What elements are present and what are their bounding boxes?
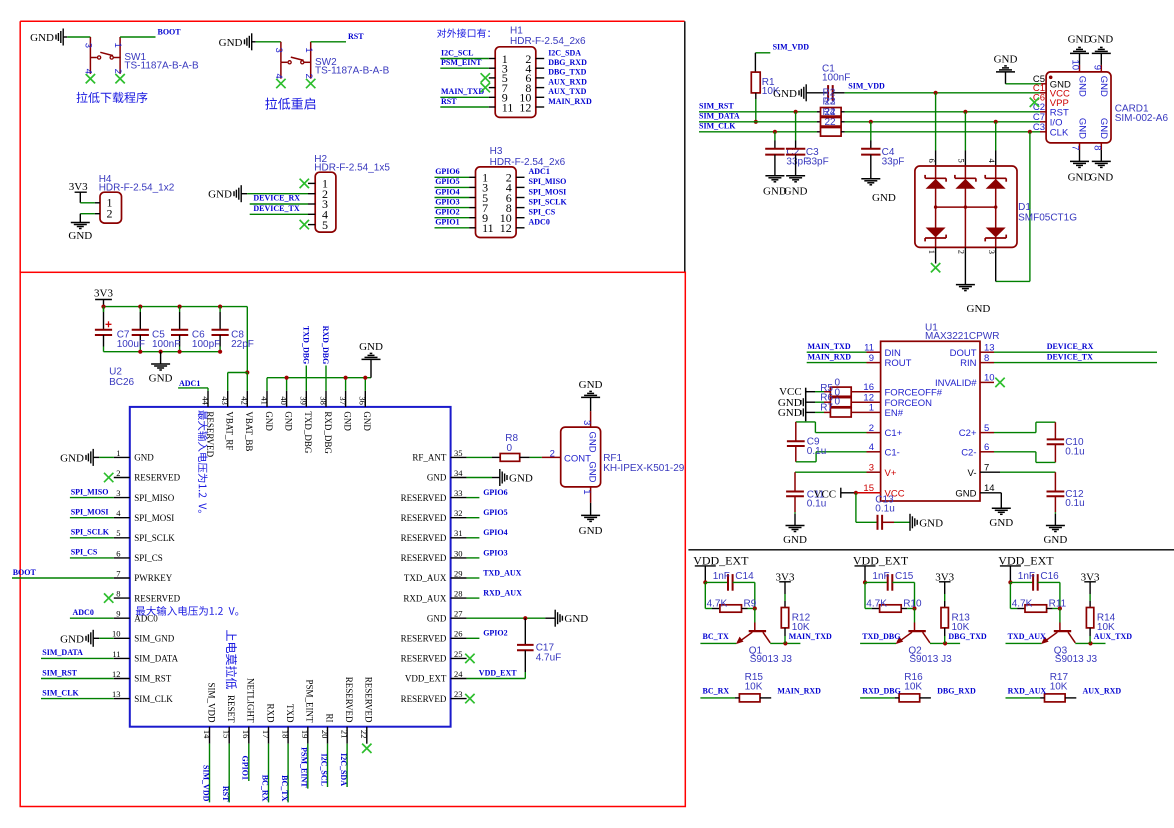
svg-text:36: 36 [358,396,368,405]
svg-text:1nF: 1nF [872,571,889,582]
svg-text:11: 11 [482,221,494,235]
svg-text:23: 23 [454,689,463,699]
svg-text:R11: R11 [1049,598,1067,609]
svg-text:0: 0 [835,397,841,408]
svg-text:3: 3 [581,420,592,425]
svg-text:GND: GND [1089,34,1113,46]
svg-text:RESERVED: RESERVED [401,493,447,503]
svg-text:BOOT: BOOT [13,568,37,577]
svg-text:0.1u: 0.1u [807,446,826,457]
svg-text:GND: GND [30,32,54,44]
svg-text:DEVICE_RX: DEVICE_RX [253,194,300,203]
svg-text:TXD_DBG: TXD_DBG [862,632,900,641]
svg-text:RI: RI [324,714,334,723]
svg-text:ADC0: ADC0 [529,218,550,227]
svg-text:0.1u: 0.1u [1065,447,1084,458]
svg-text:RXD_AUX: RXD_AUX [483,589,522,598]
svg-text:12: 12 [112,669,121,679]
svg-text:SPI_SCLK: SPI_SCLK [134,533,175,543]
svg-text:11: 11 [502,100,514,114]
svg-text:RESERVED: RESERVED [344,677,354,723]
svg-text:PSM_EINT: PSM_EINT [305,679,315,723]
svg-text:10K: 10K [1097,622,1115,633]
svg-text:1: 1 [112,43,123,48]
svg-text:TXD_DBG: TXD_DBG [301,326,310,364]
svg-text:KH-IPEX-K501-29: KH-IPEX-K501-29 [603,463,685,474]
svg-text:DEVICE_TX: DEVICE_TX [253,204,299,213]
svg-text:DBG_RXD: DBG_RXD [937,686,976,695]
svg-text:I2C_SCL: I2C_SCL [319,754,328,786]
svg-text:SPI_CS: SPI_CS [529,208,556,217]
svg-text:1: 1 [581,489,592,494]
svg-text:NETLIGHT: NETLIGHT [246,678,256,723]
svg-text:GND: GND [60,633,84,645]
svg-text:RXD_DBG: RXD_DBG [862,686,901,695]
svg-text:C15: C15 [895,571,914,582]
svg-text:40: 40 [279,396,289,405]
svg-text:0.1u: 0.1u [807,499,826,510]
svg-text:21: 21 [340,730,350,739]
svg-text:GND: GND [427,473,447,483]
svg-text:GND: GND [1089,171,1113,183]
svg-text:4.7K: 4.7K [707,598,728,609]
svg-text:GND: GND [587,432,598,453]
svg-text:28: 28 [454,589,463,599]
svg-text:CLK: CLK [1050,127,1069,138]
svg-text:7: 7 [116,568,120,578]
svg-text:SIM_DATA: SIM_DATA [42,648,83,657]
svg-text:7: 7 [1070,145,1081,150]
svg-text:33: 33 [454,488,463,498]
svg-text:GND: GND [342,411,352,431]
svg-text:3: 3 [116,488,120,498]
svg-text:GPIO2: GPIO2 [483,629,507,638]
svg-text:ROUT: ROUT [885,358,912,369]
svg-text:GND: GND [1068,34,1092,46]
svg-text:AUX_RXD: AUX_RXD [548,77,587,86]
svg-text:100nF: 100nF [152,339,180,350]
svg-text:9: 9 [1092,65,1103,70]
svg-text:1: 1 [927,250,937,254]
svg-text:4: 4 [987,159,997,164]
svg-text:C2+: C2+ [959,428,977,439]
svg-text:5: 5 [116,528,120,538]
svg-text:3: 3 [273,48,284,53]
svg-text:RESERVED: RESERVED [134,593,180,603]
svg-text:BC_RX: BC_RX [703,686,730,695]
svg-text:TXD: TXD [285,704,295,723]
svg-text:AUX_TXD: AUX_TXD [1094,632,1132,641]
svg-text:GND: GND [967,303,991,315]
svg-text:31: 31 [454,528,463,538]
svg-text:C1+: C1+ [885,428,903,439]
svg-text:H3: H3 [490,146,503,157]
svg-text:I2C_SDA: I2C_SDA [339,753,348,786]
svg-text:VDD_EXT: VDD_EXT [479,669,517,678]
svg-text:8: 8 [116,589,120,599]
svg-text:ADC0: ADC0 [73,608,94,617]
svg-text:17: 17 [261,730,271,739]
svg-text:TXD_AUX: TXD_AUX [483,568,521,577]
svg-text:GPIO3: GPIO3 [435,197,459,206]
svg-text:PSM_EINT: PSM_EINT [441,58,482,67]
svg-text:RESERVED: RESERVED [364,677,374,723]
svg-text:DOUT: DOUT [950,348,977,359]
svg-text:PSM_EINT: PSM_EINT [300,747,309,788]
svg-text:GPIO5: GPIO5 [483,508,507,517]
svg-text:R7: R7 [820,403,833,414]
svg-text:VBAT_RF: VBAT_RF [225,411,235,450]
svg-text:0.1u: 0.1u [875,504,894,515]
svg-text:0.1u: 0.1u [1065,498,1084,509]
svg-text:RESERVED: RESERVED [401,634,447,644]
svg-text:SPI_SCLK: SPI_SCLK [71,528,110,537]
svg-text:SPI_MOSI: SPI_MOSI [134,513,174,523]
svg-text:10: 10 [112,629,121,639]
svg-text:GPIO2: GPIO2 [435,208,459,217]
svg-text:6: 6 [927,159,937,163]
svg-text:SPI_SCLK: SPI_SCLK [529,197,568,206]
svg-text:GND: GND [264,411,274,431]
svg-text:MAIN_TXD: MAIN_TXD [441,87,484,96]
svg-text:GND: GND [1068,171,1092,183]
svg-text:12: 12 [500,221,512,235]
svg-text:2: 2 [116,468,120,478]
svg-text:10: 10 [1070,60,1081,71]
svg-text:29: 29 [454,568,463,578]
svg-text:GND: GND [1098,118,1109,139]
svg-text:RST: RST [221,786,230,802]
svg-text:2: 2 [112,69,123,74]
svg-text:GND: GND [362,411,372,431]
svg-text:SIM_CLK: SIM_CLK [699,122,736,131]
svg-text:GND: GND [427,613,447,623]
svg-text:BOOT: BOOT [158,28,182,37]
svg-text:GND: GND [134,453,154,463]
svg-text:ADC1: ADC1 [529,167,550,176]
svg-text:V-: V- [968,468,977,479]
svg-text:GND: GND [1076,76,1087,97]
svg-text:3: 3 [987,250,997,254]
svg-text:ADC1: ADC1 [179,379,200,388]
svg-text:GND: GND [579,525,603,537]
svg-text:SIM_CLK: SIM_CLK [42,688,79,697]
svg-text:PWRKEY: PWRKEY [134,573,173,583]
svg-text:GPIO1: GPIO1 [435,218,459,227]
svg-text:8: 8 [1092,145,1103,150]
svg-text:1nF: 1nF [1018,571,1035,582]
svg-text:DIN: DIN [885,348,902,359]
svg-text:4.7K: 4.7K [866,598,887,609]
svg-text:GND: GND [1098,76,1109,97]
svg-text:DEVICE_RX: DEVICE_RX [1047,342,1094,351]
svg-text:3V3: 3V3 [69,181,88,193]
svg-text:GND: GND [1043,534,1067,546]
svg-text:GND: GND [564,613,588,625]
svg-text:2: 2 [107,207,113,221]
svg-text:16: 16 [241,730,251,739]
svg-text:SIM_RST: SIM_RST [42,668,77,677]
svg-text:SPI_CS: SPI_CS [71,548,98,557]
svg-text:TS-1187A-B-A-B: TS-1187A-B-A-B [315,65,390,76]
svg-text:GND: GND [955,488,976,499]
svg-text:30: 30 [454,548,463,558]
svg-text:S9013 J3: S9013 J3 [1055,654,1098,665]
svg-text:5: 5 [322,218,328,232]
svg-text:RF_ANT: RF_ANT [412,453,447,463]
svg-text:GND: GND [919,517,943,529]
svg-text:12: 12 [519,100,531,114]
svg-text:10K: 10K [745,682,763,693]
svg-text:6: 6 [116,548,120,558]
svg-text:RXD: RXD [265,703,275,723]
svg-text:GND: GND [149,373,173,385]
svg-text:SIM_CLK: SIM_CLK [134,694,173,704]
svg-text:32: 32 [454,508,463,518]
svg-text:15: 15 [222,730,232,739]
svg-text:19: 19 [300,730,310,739]
svg-text:SPI_MOSI: SPI_MOSI [529,187,567,196]
svg-text:C2-: C2- [961,447,976,458]
svg-text:RESET: RESET [226,695,236,723]
svg-text:BC_RX: BC_RX [260,775,269,802]
svg-text:SMF05CT1G: SMF05CT1G [1018,212,1077,223]
svg-text:R9: R9 [744,598,757,609]
svg-text:13: 13 [112,689,121,699]
svg-text:4: 4 [273,73,284,78]
svg-text:27: 27 [454,609,463,619]
svg-text:AUX_TXD: AUX_TXD [548,87,586,96]
svg-text:GPIO4: GPIO4 [435,187,459,196]
svg-text:1: 1 [303,47,314,52]
svg-text:11: 11 [112,649,120,659]
svg-text:GND: GND [283,411,293,431]
svg-text:RESERVED: RESERVED [401,694,447,704]
svg-text:GND: GND [219,37,243,49]
svg-text:GPIO1: GPIO1 [241,756,250,780]
svg-text:GND: GND [783,534,807,546]
svg-text:DBG_TXD: DBG_TXD [948,632,986,641]
svg-text:AUX_RXD: AUX_RXD [1083,686,1122,695]
svg-text:RST: RST [441,97,457,106]
svg-text:100pF: 100pF [192,339,220,350]
svg-text:MAIN_RXD: MAIN_RXD [777,686,821,695]
svg-text:SIM_GND: SIM_GND [134,634,175,644]
svg-text:25: 25 [454,649,463,659]
svg-text:3V3: 3V3 [94,287,113,299]
svg-text:SIM_RST: SIM_RST [699,102,734,111]
svg-text:GND: GND [1076,118,1087,139]
svg-text:RXD_AUX: RXD_AUX [1008,686,1047,695]
svg-text:44: 44 [200,396,210,405]
svg-text:INVALID#: INVALID# [935,378,977,389]
svg-text:10K: 10K [792,622,810,633]
svg-text:I2C_SCL: I2C_SCL [441,48,473,57]
svg-text:22: 22 [359,730,369,739]
svg-text:GPIO5: GPIO5 [435,177,459,186]
svg-text:S9013 J3: S9013 J3 [909,654,952,665]
svg-text:RIN: RIN [960,358,977,369]
svg-text:C16: C16 [1040,571,1059,582]
svg-text:MAIN_TXD: MAIN_TXD [808,342,851,351]
svg-text:GND: GND [587,461,598,482]
svg-text:4.7K: 4.7K [1012,598,1033,609]
svg-text:GND: GND [579,379,603,391]
svg-text:HDR-F-2.54_2x6: HDR-F-2.54_2x6 [510,36,586,47]
svg-text:0: 0 [507,443,513,454]
svg-text:39: 39 [299,396,309,405]
svg-text:GND: GND [989,517,1013,529]
svg-text:GND: GND [773,88,797,100]
svg-text:RESERVED: RESERVED [401,533,447,543]
svg-text:C14: C14 [735,571,754,582]
svg-text:C1-: C1- [885,447,900,458]
svg-text:3: 3 [83,43,94,48]
svg-text:26: 26 [454,629,463,639]
svg-text:SPI_MOSI: SPI_MOSI [71,508,109,517]
svg-text:1nF: 1nF [713,571,730,582]
svg-text:100uF: 100uF [117,339,145,350]
svg-text:10K: 10K [952,622,970,633]
svg-text:37: 37 [338,396,348,405]
svg-text:4: 4 [83,69,94,74]
svg-text:2: 2 [303,73,314,78]
svg-text:VDD_EXT: VDD_EXT [405,674,447,684]
svg-text:SIM_RST: SIM_RST [134,674,172,684]
svg-text:41: 41 [259,396,269,405]
svg-text:SPI_MISO: SPI_MISO [71,487,109,496]
svg-text:4.7uF: 4.7uF [536,652,562,663]
svg-text:S9013 J3: S9013 J3 [750,654,793,665]
svg-text:RXD_AUX: RXD_AUX [403,593,447,603]
svg-text:20: 20 [320,730,330,739]
svg-text:DBG_RXD: DBG_RXD [548,58,587,67]
svg-text:TXD_AUX: TXD_AUX [1008,632,1046,641]
svg-text:10K: 10K [1050,682,1068,693]
svg-text:BC_TX: BC_TX [280,775,289,801]
svg-text:SPI_MISO: SPI_MISO [134,493,175,503]
svg-text:9: 9 [116,609,120,619]
svg-text:GND: GND [509,473,533,485]
svg-text:10K: 10K [904,682,922,693]
svg-text:SPI_CS: SPI_CS [134,553,163,563]
svg-text:18: 18 [281,730,291,739]
svg-text:GND: GND [359,341,383,353]
svg-text:U2: U2 [109,366,122,377]
svg-text:GND: GND [994,53,1018,65]
svg-text:22pF: 22pF [231,339,254,350]
svg-text:33pF: 33pF [806,156,829,167]
svg-text:VBAT_BB: VBAT_BB [244,411,254,451]
svg-text:SIM_VDD: SIM_VDD [773,42,810,51]
svg-text:RESERVED: RESERVED [401,553,447,563]
svg-text:SIM_VDD: SIM_VDD [848,82,885,91]
svg-text:GND: GND [778,407,802,419]
svg-text:GND: GND [208,189,232,201]
svg-text:GPIO4: GPIO4 [483,528,507,537]
svg-text:MAIN_RXD: MAIN_RXD [548,97,592,106]
svg-text:34: 34 [454,468,463,478]
svg-text:GPIO3: GPIO3 [483,548,507,557]
svg-text:GND: GND [872,192,896,204]
svg-text:DEVICE_TX: DEVICE_TX [1047,353,1093,362]
svg-text:GPIO6: GPIO6 [435,167,459,176]
svg-text:SIM_VDD: SIM_VDD [206,682,216,723]
svg-text:GND: GND [60,452,84,464]
svg-text:GND: GND [68,230,92,242]
svg-text:SIM_DATA: SIM_DATA [699,112,740,121]
svg-text:TXD_DBG: TXD_DBG [303,411,313,453]
svg-text:24: 24 [454,669,463,679]
svg-text:2: 2 [957,250,967,254]
svg-text:EN#: EN# [885,408,904,419]
svg-text:RESERVED: RESERVED [401,513,447,523]
svg-text:MAIN_TXD: MAIN_TXD [789,632,832,641]
svg-text:TS-1187A-B-A-B: TS-1187A-B-A-B [124,61,199,72]
svg-text:2: 2 [550,448,555,459]
svg-text:SIM_DATA: SIM_DATA [134,654,178,664]
svg-text:42: 42 [240,396,250,405]
svg-text:14: 14 [202,730,212,739]
svg-text:GPIO6: GPIO6 [483,488,507,497]
svg-text:BC26: BC26 [109,377,134,388]
svg-text:RXD_DBG: RXD_DBG [323,411,333,454]
svg-text:43: 43 [220,396,230,405]
svg-text:33pF: 33pF [882,156,905,167]
svg-text:I2C_SDA: I2C_SDA [548,48,581,57]
svg-text:TXD_AUX: TXD_AUX [404,573,447,583]
svg-text:RST: RST [348,32,364,41]
svg-text:GND: GND [784,186,808,198]
svg-text:SPI_MISO: SPI_MISO [529,177,567,186]
svg-text:DBG_TXD: DBG_TXD [548,68,586,77]
svg-text:SIM_VDD: SIM_VDD [201,765,210,802]
svg-text:35: 35 [454,448,463,458]
svg-text:H1: H1 [510,25,523,36]
svg-text:MAIN_RXD: MAIN_RXD [808,353,852,362]
svg-text:100nF: 100nF [822,73,850,84]
svg-text:V+: V+ [885,468,897,479]
svg-text:BC_TX: BC_TX [703,632,729,641]
svg-text:38: 38 [318,396,328,405]
svg-text:SIM-002-A6: SIM-002-A6 [1115,113,1169,124]
svg-text:RESERVED: RESERVED [401,654,447,664]
svg-text:5: 5 [957,159,967,163]
svg-text:R10: R10 [903,598,922,609]
svg-text:RXD_DBG: RXD_DBG [321,326,330,365]
svg-text:RESERVED: RESERVED [134,473,180,483]
svg-text:1: 1 [116,448,120,458]
